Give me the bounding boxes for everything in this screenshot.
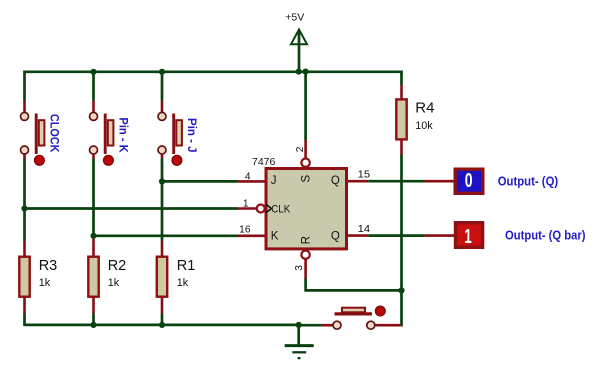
push button Pin-J: [158, 112, 199, 165]
svg-text:Output- (Q): Output- (Q): [498, 174, 559, 189]
pin R bubble (pin 3): [301, 251, 309, 259]
wire reset button right terminal to R4 column: [375, 324, 401, 327]
junction R1 / ground rail: [159, 322, 165, 328]
svg-text:1k: 1k: [108, 277, 120, 289]
svg-text:14: 14: [358, 224, 371, 235]
resistor R1: [157, 257, 196, 297]
svg-text:1: 1: [464, 226, 471, 248]
resistor R4: [396, 99, 434, 139]
wire CLK net (CLOCK column to CLK pin): [25, 207, 257, 210]
junction Pin-J column / J net: [159, 178, 165, 184]
junction S column / top rail: [303, 69, 309, 75]
svg-text:R3: R3: [39, 258, 58, 274]
push button Pin-K: [90, 112, 131, 165]
pin CLK bubble (pin 1): [257, 205, 265, 213]
pin S bubble (pin 2): [301, 159, 309, 167]
svg-text:Q: Q: [331, 231, 340, 243]
svg-text:+5V: +5V: [285, 12, 304, 24]
svg-text:1k: 1k: [39, 277, 51, 289]
wire left column top (rail to CLOCK button): [23, 71, 26, 113]
svg-text:CLK: CLK: [271, 204, 290, 216]
svg-text:1: 1: [243, 198, 249, 209]
wire ground rail: [25, 324, 299, 327]
resistor R2: [88, 257, 126, 297]
wire R1 bottom to ground rail: [161, 297, 164, 326]
svg-text:K: K: [271, 231, 279, 243]
junction Pin-J column / top rail: [159, 69, 165, 75]
wire Q-bar output net (pin 14 to logic probe): [348, 234, 455, 237]
svg-text:R4: R4: [415, 100, 434, 117]
push button reset (bottom): [333, 306, 385, 329]
svg-text:S: S: [301, 175, 313, 183]
wire R4 column (rail to R4): [400, 71, 403, 100]
svg-text:Pin - K: Pin - K: [117, 117, 131, 152]
op-amp U1: 7476 JK flip-flop body: [252, 156, 347, 249]
svg-text:R: R: [301, 236, 313, 244]
wire K net (Pin-K column to K pin): [94, 234, 265, 237]
svg-text:15: 15: [358, 170, 371, 181]
svg-text:CLOCK: CLOCK: [47, 114, 61, 153]
wire Pin-K button to R2 (middle column): [92, 155, 95, 258]
svg-text:16: 16: [239, 224, 251, 235]
junction CLOCK column / CLK net: [21, 205, 27, 211]
junction Pin-K column / K net: [90, 233, 96, 239]
logic probe 1 (Q bar output): [456, 223, 483, 248]
svg-text:Q: Q: [331, 175, 340, 187]
svg-text:2: 2: [295, 146, 306, 152]
wire +5V top rail: [25, 70, 402, 73]
wire R pin (pin 3) down and right to R4 column: [306, 259, 402, 291]
wire J net (Pin-J column to J pin): [162, 180, 265, 183]
wire ground rail to reset button left terminal: [299, 324, 333, 327]
svg-text:Pin - J: Pin - J: [185, 118, 199, 153]
wire S-pin column (rail to S bubble): [304, 72, 307, 158]
wire R4 bottom down to bottom-right corner: [400, 140, 403, 326]
svg-text:Output- (Q bar): Output- (Q bar): [505, 228, 586, 243]
wire Pin-K column top (rail to button): [92, 72, 95, 112]
junction R2 / ground rail: [90, 322, 96, 328]
svg-text:3: 3: [294, 265, 305, 271]
junction R pin net / R4 column: [398, 287, 404, 293]
svg-text:10k: 10k: [415, 120, 433, 132]
junction ground stem / ground rail: [296, 322, 302, 328]
junction +5V stem / top rail: [296, 69, 302, 75]
wire Pin-J button to R1 (third column): [161, 155, 164, 258]
logic probe 0 (Q output): [455, 169, 483, 193]
svg-text:R1: R1: [177, 258, 196, 274]
ground: [285, 325, 314, 358]
push button CLOCK: [21, 112, 62, 165]
wire R2 bottom to ground rail: [92, 297, 95, 326]
svg-text:7476: 7476: [252, 156, 276, 168]
wire Pin-J column top (rail to button): [161, 72, 164, 112]
svg-text:J: J: [271, 175, 277, 187]
edge-trigger mark on CLK: [266, 204, 272, 213]
resistor R3: [19, 257, 57, 297]
wire CLOCK button to R3 (left column middle): [23, 155, 26, 258]
svg-text:1k: 1k: [177, 277, 189, 289]
wire R3 bottom to ground rail: [23, 297, 26, 326]
svg-text:0: 0: [465, 170, 473, 192]
junction Pin-K column / top rail: [90, 69, 96, 75]
power +5V symbol: [285, 12, 307, 72]
wire Q output net (pin 15 to logic probe): [348, 180, 455, 183]
svg-text:R2: R2: [108, 258, 127, 274]
svg-text:4: 4: [245, 172, 251, 183]
